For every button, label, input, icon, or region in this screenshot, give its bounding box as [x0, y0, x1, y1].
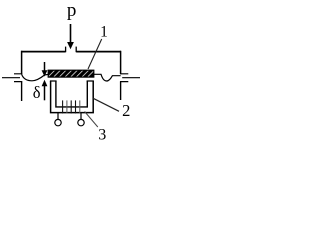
terminal lead stub right: [80, 113, 82, 120]
support bracket outer outline, item 2: [51, 81, 94, 113]
notch stub left: [65, 47, 67, 53]
leader line for label 3: [85, 112, 98, 128]
hatched boss bar (diaphragm rigid centre), item 1: [48, 70, 94, 77]
terminal lead stub left: [57, 113, 59, 120]
terminal circle left: [55, 119, 61, 125]
diaphragm left corrugation wave: [22, 74, 49, 81]
leader line for label 1: [88, 39, 102, 69]
case right wall lower: [120, 81, 122, 100]
delta dimension up arrow: [42, 80, 48, 87]
case left wall upper: [21, 51, 23, 74]
bracket wall top caps: [50, 80, 94, 82]
terminal circle right: [78, 119, 84, 125]
svg-text:2: 2: [122, 101, 130, 120]
svg-text:δ: δ: [33, 83, 41, 102]
leader line for label 2: [93, 98, 119, 111]
right break symbol (flange): [120, 74, 140, 82]
pressure arrow: [70, 24, 72, 44]
strain gauge grid ticks, item 3 region: [62, 100, 64, 113]
notch stub right: [75, 47, 77, 53]
case top cover line with inlet notch: [21, 51, 121, 53]
case right wall upper: [120, 51, 122, 74]
diaphragm right corrugation wave: [94, 74, 121, 81]
svg-text:p: p: [67, 0, 77, 21]
case left wall lower: [21, 81, 23, 101]
support bracket inner outline: [56, 81, 87, 107]
svg-text:3: 3: [98, 126, 106, 142]
left break symbol (flange): [2, 74, 22, 82]
delta dimension down arrow: [44, 62, 46, 72]
svg-text:1: 1: [100, 24, 108, 41]
